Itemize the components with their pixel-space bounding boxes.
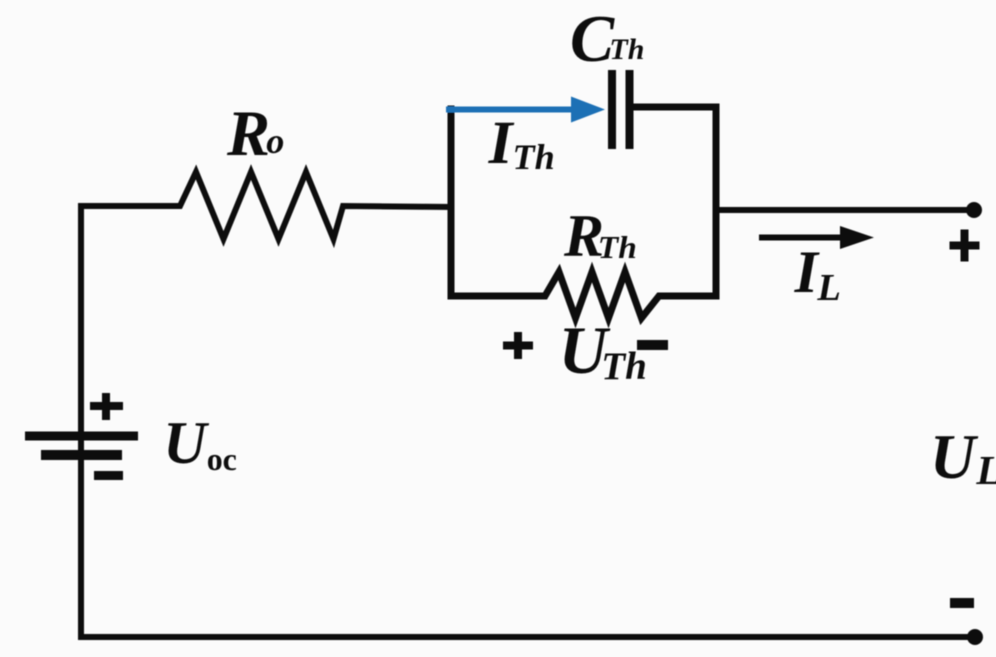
svg-text:L: L [975, 447, 996, 493]
svg-text:oc: oc [207, 442, 237, 477]
svg-text:Th: Th [598, 230, 637, 265]
svg-text:Th: Th [609, 33, 644, 66]
svg-text:U: U [930, 422, 979, 492]
svg-text:Th: Th [513, 137, 555, 177]
svg-text:I: I [488, 109, 515, 177]
svg-text:o: o [266, 121, 284, 161]
svg-text:Th: Th [601, 345, 647, 388]
svg-text:C: C [570, 3, 615, 76]
svg-text:U: U [163, 410, 209, 476]
svg-text:L: L [816, 267, 841, 309]
svg-text:R: R [226, 97, 270, 169]
